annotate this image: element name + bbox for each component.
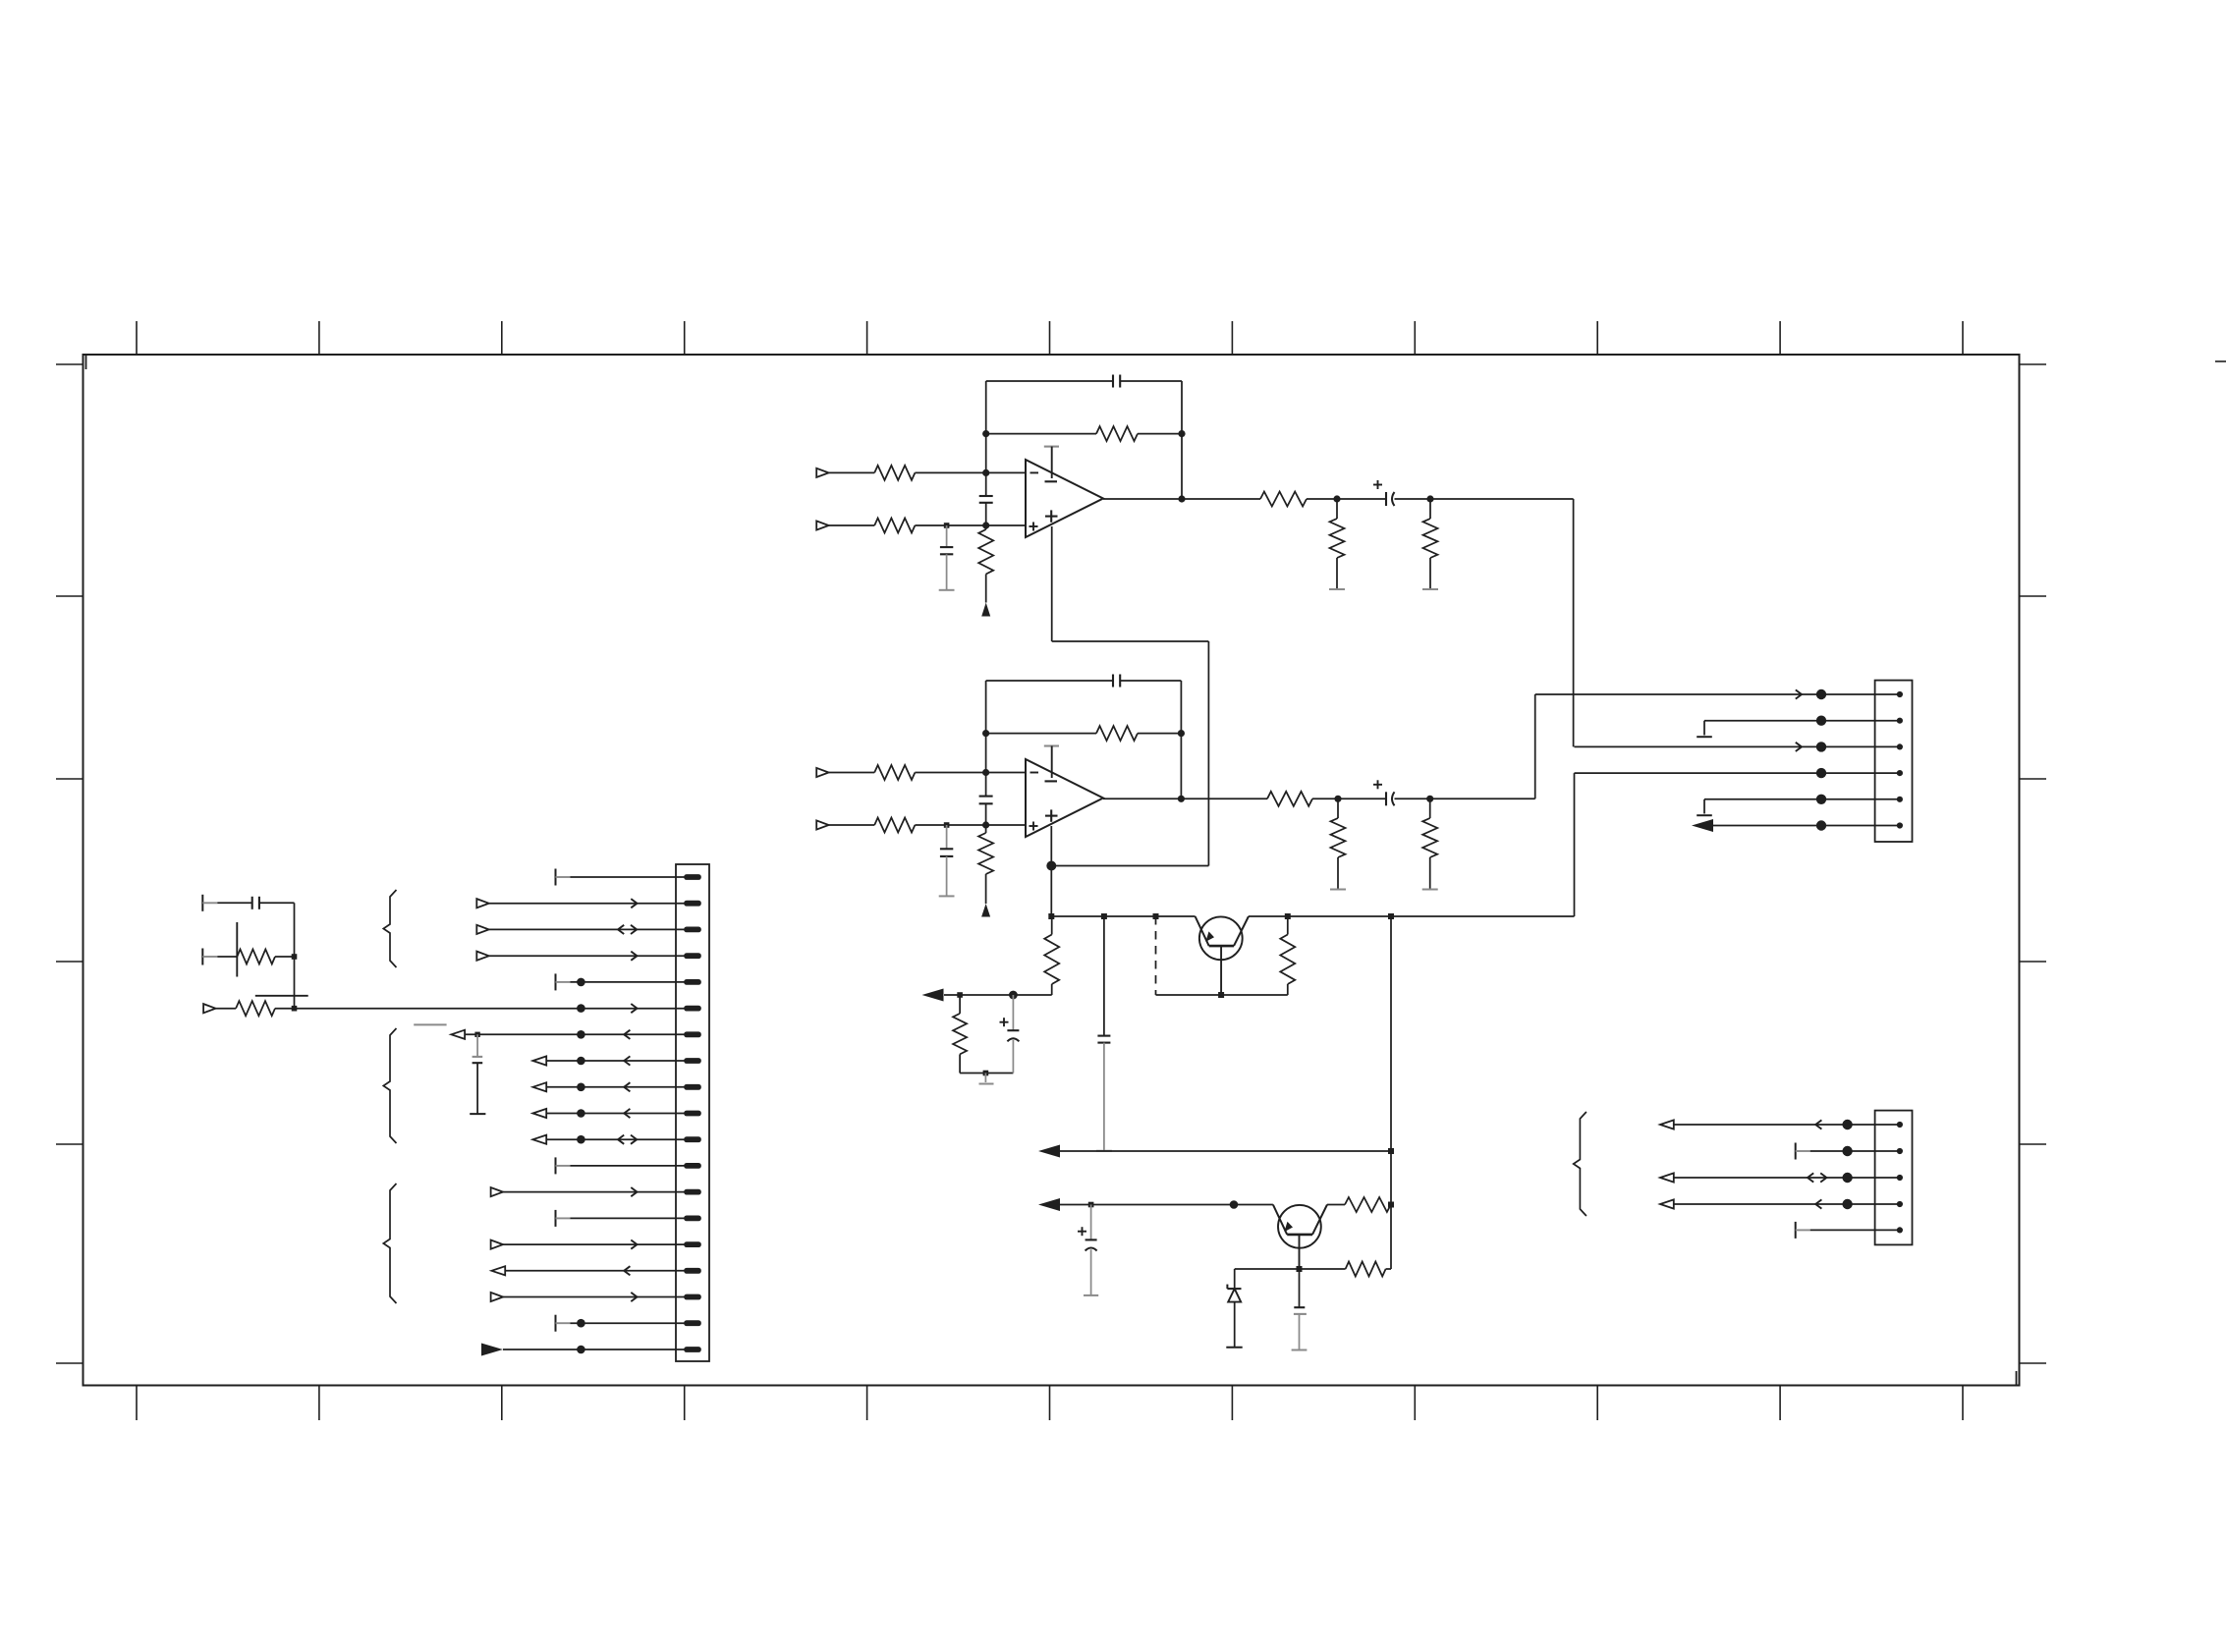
- resistor R15: [1044, 916, 1059, 995]
- node: [957, 992, 963, 998]
- right border zone tick marks: [2020, 364, 2046, 1363]
- polarized capacitor C4: [1373, 480, 1395, 506]
- node (non-inverting input): [982, 522, 989, 528]
- signal dot: [1842, 1146, 1852, 1156]
- signal dot: [577, 1109, 585, 1118]
- resistor R3 to V- arrow: [978, 525, 993, 603]
- wire: [216, 1008, 237, 1010]
- transistor Q2 (PNP): [1273, 1205, 1327, 1270]
- wire: [1713, 825, 1900, 827]
- right edge registration mark: [2215, 360, 2226, 362]
- capacitor C10 to stub: [1096, 916, 1112, 1151]
- wire: [465, 1033, 685, 1035]
- wire (U1B output to J2 pin 1): [1430, 694, 1875, 798]
- wire: [546, 1113, 685, 1115]
- wire: [915, 824, 1026, 826]
- capacitor C6 to stub: [939, 825, 955, 896]
- flow chevron: [631, 899, 637, 908]
- wire (Q2 collector side): [1327, 1204, 1345, 1206]
- wire: [985, 503, 987, 525]
- wire: [489, 928, 685, 930]
- off-page arrow (control line 2): [1038, 1198, 1060, 1211]
- output port (J3 pin1): [1660, 1120, 1674, 1129]
- input port P5: [203, 1004, 215, 1013]
- flow chevron: [624, 1030, 630, 1039]
- wire (bottom rail): [960, 1073, 1013, 1074]
- stub (J1 pin14): [556, 1210, 686, 1227]
- stub (J1 pin1): [556, 869, 686, 886]
- node: [1388, 1202, 1394, 1208]
- node (C9/R16 rail): [1009, 991, 1018, 1000]
- stub: [202, 895, 217, 911]
- signal dot (J1 pin6 row): [577, 1004, 585, 1013]
- resistor R16: [953, 995, 967, 1074]
- wire: [1307, 498, 1386, 500]
- node: [1088, 1202, 1094, 1208]
- wire: [275, 956, 295, 958]
- signal dot: [577, 1346, 585, 1354]
- wire (J2 pin1 lead): [1875, 693, 1900, 695]
- resistor R21: [236, 1001, 275, 1016]
- wire (U1A output): [1103, 498, 1260, 500]
- sheet border frame: [83, 355, 2020, 1386]
- stub (J3 pin2): [1796, 1143, 1900, 1160]
- wire (J2 pin3 lead): [1575, 745, 1900, 747]
- wire (U1A V- pin route): [1051, 526, 1208, 866]
- wire: [915, 772, 1026, 774]
- wire: [986, 733, 1096, 735]
- node: [474, 1032, 479, 1037]
- wire: [546, 1138, 685, 1140]
- node: [292, 954, 298, 960]
- net label overline: [414, 1023, 446, 1025]
- flow chevron: [631, 1293, 637, 1301]
- node: [1178, 430, 1185, 437]
- signal dot: [577, 1319, 585, 1328]
- capacitor C12 to stub: [1292, 1269, 1308, 1350]
- node: [1388, 1148, 1394, 1154]
- stub: [202, 949, 217, 965]
- top border zone tick marks: [137, 321, 1963, 355]
- flow chevron: [631, 1187, 637, 1196]
- wire: [1138, 733, 1181, 735]
- op-amp U1B V+ pin: [1044, 746, 1059, 779]
- resistor R8: [874, 765, 915, 780]
- resistor R7 to stub: [1422, 499, 1438, 589]
- output port (J1 pin7): [451, 1030, 465, 1039]
- resistor R1: [874, 466, 915, 480]
- wire (to J2 pin 4): [1575, 773, 1875, 916]
- off-page arrow (V- feed): [922, 989, 944, 1002]
- signal dot: [577, 978, 585, 987]
- input port (J1 pin4): [476, 952, 488, 961]
- wire: [1674, 1177, 1900, 1179]
- op-amp U1A V+ pin: [1044, 447, 1059, 478]
- resistor R13 to stub: [1330, 798, 1346, 889]
- wire: [1060, 1204, 1273, 1206]
- output port (J3 pin4): [1660, 1199, 1674, 1208]
- wire (feedback right leg): [1180, 681, 1182, 798]
- connector J1 body: [676, 864, 709, 1361]
- resistor R19: [1346, 1262, 1386, 1277]
- stub (J1 pin5): [556, 973, 686, 990]
- stub (J3 pin5): [1796, 1222, 1900, 1239]
- node: [1101, 913, 1107, 919]
- wire (J2 pin5 stub): [1697, 799, 1900, 815]
- flow chevron pair: [618, 1135, 637, 1144]
- flow chevron pair: [1808, 1173, 1826, 1182]
- power arrow (negative rail): [981, 904, 990, 917]
- input port (J1 pin17): [491, 1293, 503, 1301]
- node: [1285, 913, 1291, 919]
- signal dot: [1842, 1173, 1852, 1183]
- resistor R18: [1345, 1197, 1391, 1212]
- connector J3 body: [1875, 1111, 1913, 1245]
- output port (J1 pin11): [532, 1135, 546, 1144]
- node (U1B output / feedback): [1178, 796, 1185, 802]
- node (Q2 base): [1297, 1266, 1303, 1272]
- connector J2 pins: [1897, 691, 1903, 829]
- resistor R2: [874, 519, 915, 533]
- stub terminator: [979, 1074, 994, 1084]
- wire (feedback right leg): [1181, 381, 1183, 499]
- op-amp U1B: [1026, 759, 1103, 837]
- wire (J2 pin4 lead): [1875, 772, 1900, 774]
- wire: [259, 903, 295, 957]
- stub (J1 pin18): [556, 1315, 686, 1332]
- capacitor C13: [252, 897, 259, 909]
- flow chevron: [631, 1240, 637, 1249]
- input port (J1 pin13): [491, 1187, 503, 1196]
- off-page arrow (J1 pin19): [481, 1344, 503, 1356]
- resistor R9: [874, 818, 915, 833]
- wire: [1138, 433, 1182, 435]
- wire (feedback top): [986, 380, 1182, 382]
- resistor R10 to V- arrow: [978, 825, 993, 904]
- signal dot: [1842, 1120, 1852, 1129]
- resistor R20: [237, 950, 275, 964]
- signal dot: [1816, 742, 1826, 751]
- bottom border zone tick marks: [137, 1386, 1963, 1420]
- power arrow (negative rail): [981, 603, 990, 617]
- node (R9/C6 junction): [944, 822, 950, 828]
- wire: [294, 957, 296, 1009]
- resistor R4 (feedback): [1096, 426, 1138, 441]
- wire: [217, 956, 237, 958]
- capacitor C5 (input pair): [979, 797, 993, 804]
- resistor R12 (output series): [1267, 792, 1312, 806]
- input port P4 (op-amp U1B non-inverting input): [816, 820, 828, 829]
- wire: [546, 1060, 685, 1062]
- flow chevron: [624, 1109, 630, 1118]
- node: [1153, 913, 1159, 919]
- signal dot: [577, 1135, 585, 1144]
- signal dot: [1816, 795, 1826, 804]
- capacitor C1 (input pair): [979, 496, 993, 503]
- wire (Q2 collector column): [1390, 916, 1392, 1269]
- node (inverting input): [982, 469, 989, 476]
- polarized capacitor C9: [1000, 995, 1020, 1074]
- floating dash: [255, 995, 308, 997]
- left border zone tick marks: [56, 364, 83, 1363]
- node (V- junction): [1046, 861, 1056, 871]
- wire: [1395, 798, 1430, 799]
- wire: [1674, 1203, 1900, 1205]
- wire (feedback top): [986, 680, 1182, 682]
- node (non-inverting input): [982, 821, 989, 828]
- wire: [944, 994, 1052, 996]
- capacitor C2 to stub: [939, 525, 955, 590]
- node: [1334, 796, 1341, 802]
- wire: [986, 433, 1096, 435]
- connector J2 body: [1875, 681, 1913, 842]
- flow chevron: [624, 1056, 630, 1065]
- wire: [1395, 498, 1574, 500]
- input port (J1 pin2): [476, 899, 488, 908]
- flow chevron: [1815, 1199, 1821, 1208]
- brace (J1 input group C): [383, 1184, 396, 1303]
- wire: [829, 471, 875, 473]
- dashed wire (Q1 emitter sense): [1155, 916, 1157, 995]
- input port (J1 pin15): [491, 1240, 503, 1249]
- wire (feedback left leg): [985, 381, 987, 496]
- wire (U1B output): [1103, 798, 1267, 799]
- wire: [489, 955, 685, 957]
- brace (J1 bidirectional group B): [383, 1028, 396, 1143]
- connector J3 pins: [1897, 1122, 1903, 1234]
- wire: [505, 1270, 685, 1272]
- wire: [829, 824, 875, 826]
- output port (J1 pin9): [532, 1082, 546, 1091]
- node: [292, 1006, 298, 1012]
- node: [1048, 913, 1054, 919]
- wire (U1B V- pin): [1050, 826, 1052, 916]
- flow chevron: [1815, 1120, 1821, 1129]
- signal dot: [577, 1030, 585, 1039]
- wire (J2 pin2 stub): [1697, 721, 1900, 738]
- wire (feedback left leg): [985, 681, 987, 797]
- wire: [217, 902, 251, 904]
- op-amp U1A: [1026, 460, 1103, 537]
- capacitor C3 (feedback): [1113, 375, 1120, 388]
- signal dot: [1816, 820, 1826, 830]
- wire: [503, 1296, 685, 1298]
- wire: [546, 1086, 685, 1088]
- output port (J1 pin16): [491, 1266, 505, 1275]
- flow chevron pair: [618, 925, 637, 934]
- resistor R14 to stub: [1422, 798, 1438, 889]
- node: [1388, 913, 1394, 919]
- wire: [915, 471, 1026, 473]
- signal dot: [577, 1083, 585, 1092]
- flow chevron: [1796, 689, 1802, 698]
- transistor Q1 (PNP): [1196, 916, 1249, 995]
- flow chevron: [624, 1266, 630, 1275]
- wire: [503, 1349, 685, 1350]
- node: [1333, 495, 1340, 502]
- node (R2/C2 junction): [944, 523, 950, 528]
- zener diode D1: [1226, 1269, 1242, 1348]
- node: [983, 1071, 989, 1076]
- input port P1 (op-amp U1A inverting input): [816, 468, 828, 477]
- wire: [1674, 1124, 1900, 1126]
- resistor R17: [1280, 916, 1295, 995]
- wire: [1386, 1268, 1391, 1270]
- signal dot: [1816, 768, 1826, 778]
- node: [1178, 730, 1185, 737]
- input port (J1 pin3): [476, 925, 488, 934]
- wire: [503, 1191, 685, 1193]
- wire (V- rail right): [1249, 915, 1575, 917]
- off-page arrow (J2 pin6): [1692, 819, 1713, 832]
- flow chevron: [1796, 743, 1802, 751]
- wire: [1312, 798, 1386, 799]
- resistor R11 (feedback): [1096, 726, 1138, 741]
- node (feedback resistor tap): [982, 430, 989, 437]
- node: [1426, 495, 1433, 502]
- bottom-right inner corner mark: [2016, 1371, 2018, 1385]
- wire: [1060, 1150, 1391, 1152]
- wire: [489, 903, 685, 905]
- wire: [829, 524, 875, 526]
- capacitor C7 (feedback): [1113, 675, 1120, 688]
- signal dot: [1816, 689, 1826, 699]
- wire: [503, 1243, 685, 1245]
- node (Q1 base): [1218, 992, 1224, 998]
- wire (U1A output to J2 pin 3): [1573, 499, 1575, 746]
- wire (to J1 pin 6): [275, 1008, 685, 1010]
- polarized capacitor C11 to stub: [1078, 1205, 1098, 1295]
- brace (J3 signal group): [1574, 1112, 1586, 1216]
- node (inverting input): [982, 769, 989, 776]
- signal dot: [1230, 1200, 1239, 1209]
- resistor R5 (output series): [1260, 492, 1307, 507]
- flow chevron: [624, 1082, 630, 1091]
- node (U1A output / feedback): [1178, 495, 1185, 502]
- input port P3 (op-amp U1B inverting input): [816, 768, 828, 777]
- flow chevron: [631, 1004, 637, 1013]
- resistor R6 to stub: [1329, 499, 1345, 589]
- top-left inner corner mark: [85, 355, 87, 369]
- signal dot: [1816, 716, 1826, 726]
- connector J1 pins: [684, 874, 701, 1352]
- off-page arrow (control line 1): [1038, 1145, 1060, 1158]
- capacitor C14 to stub: [470, 1034, 485, 1114]
- output port (J1 pin10): [532, 1109, 546, 1118]
- polarized capacitor C8: [1373, 780, 1395, 805]
- node (feedback resistor tap): [982, 730, 989, 737]
- wire (V- rail): [1051, 915, 1195, 917]
- input port P2 (op-amp U1A non-inverting input): [816, 521, 828, 529]
- brace (J1 input group A): [383, 890, 396, 967]
- wire: [829, 772, 875, 774]
- stub (J1 pin12): [556, 1157, 686, 1174]
- output port (J1 pin8): [532, 1056, 546, 1065]
- tie bar: [236, 922, 238, 977]
- wire (Q1 base rail): [1156, 994, 1288, 996]
- wire: [915, 524, 1026, 526]
- output port (J3 pin3): [1660, 1173, 1674, 1182]
- wire: [985, 803, 987, 825]
- node: [1426, 796, 1433, 802]
- flow chevron: [631, 952, 637, 961]
- wire (Q2 base row): [1235, 1268, 1346, 1270]
- signal dot: [1842, 1199, 1852, 1209]
- signal dot: [577, 1057, 585, 1066]
